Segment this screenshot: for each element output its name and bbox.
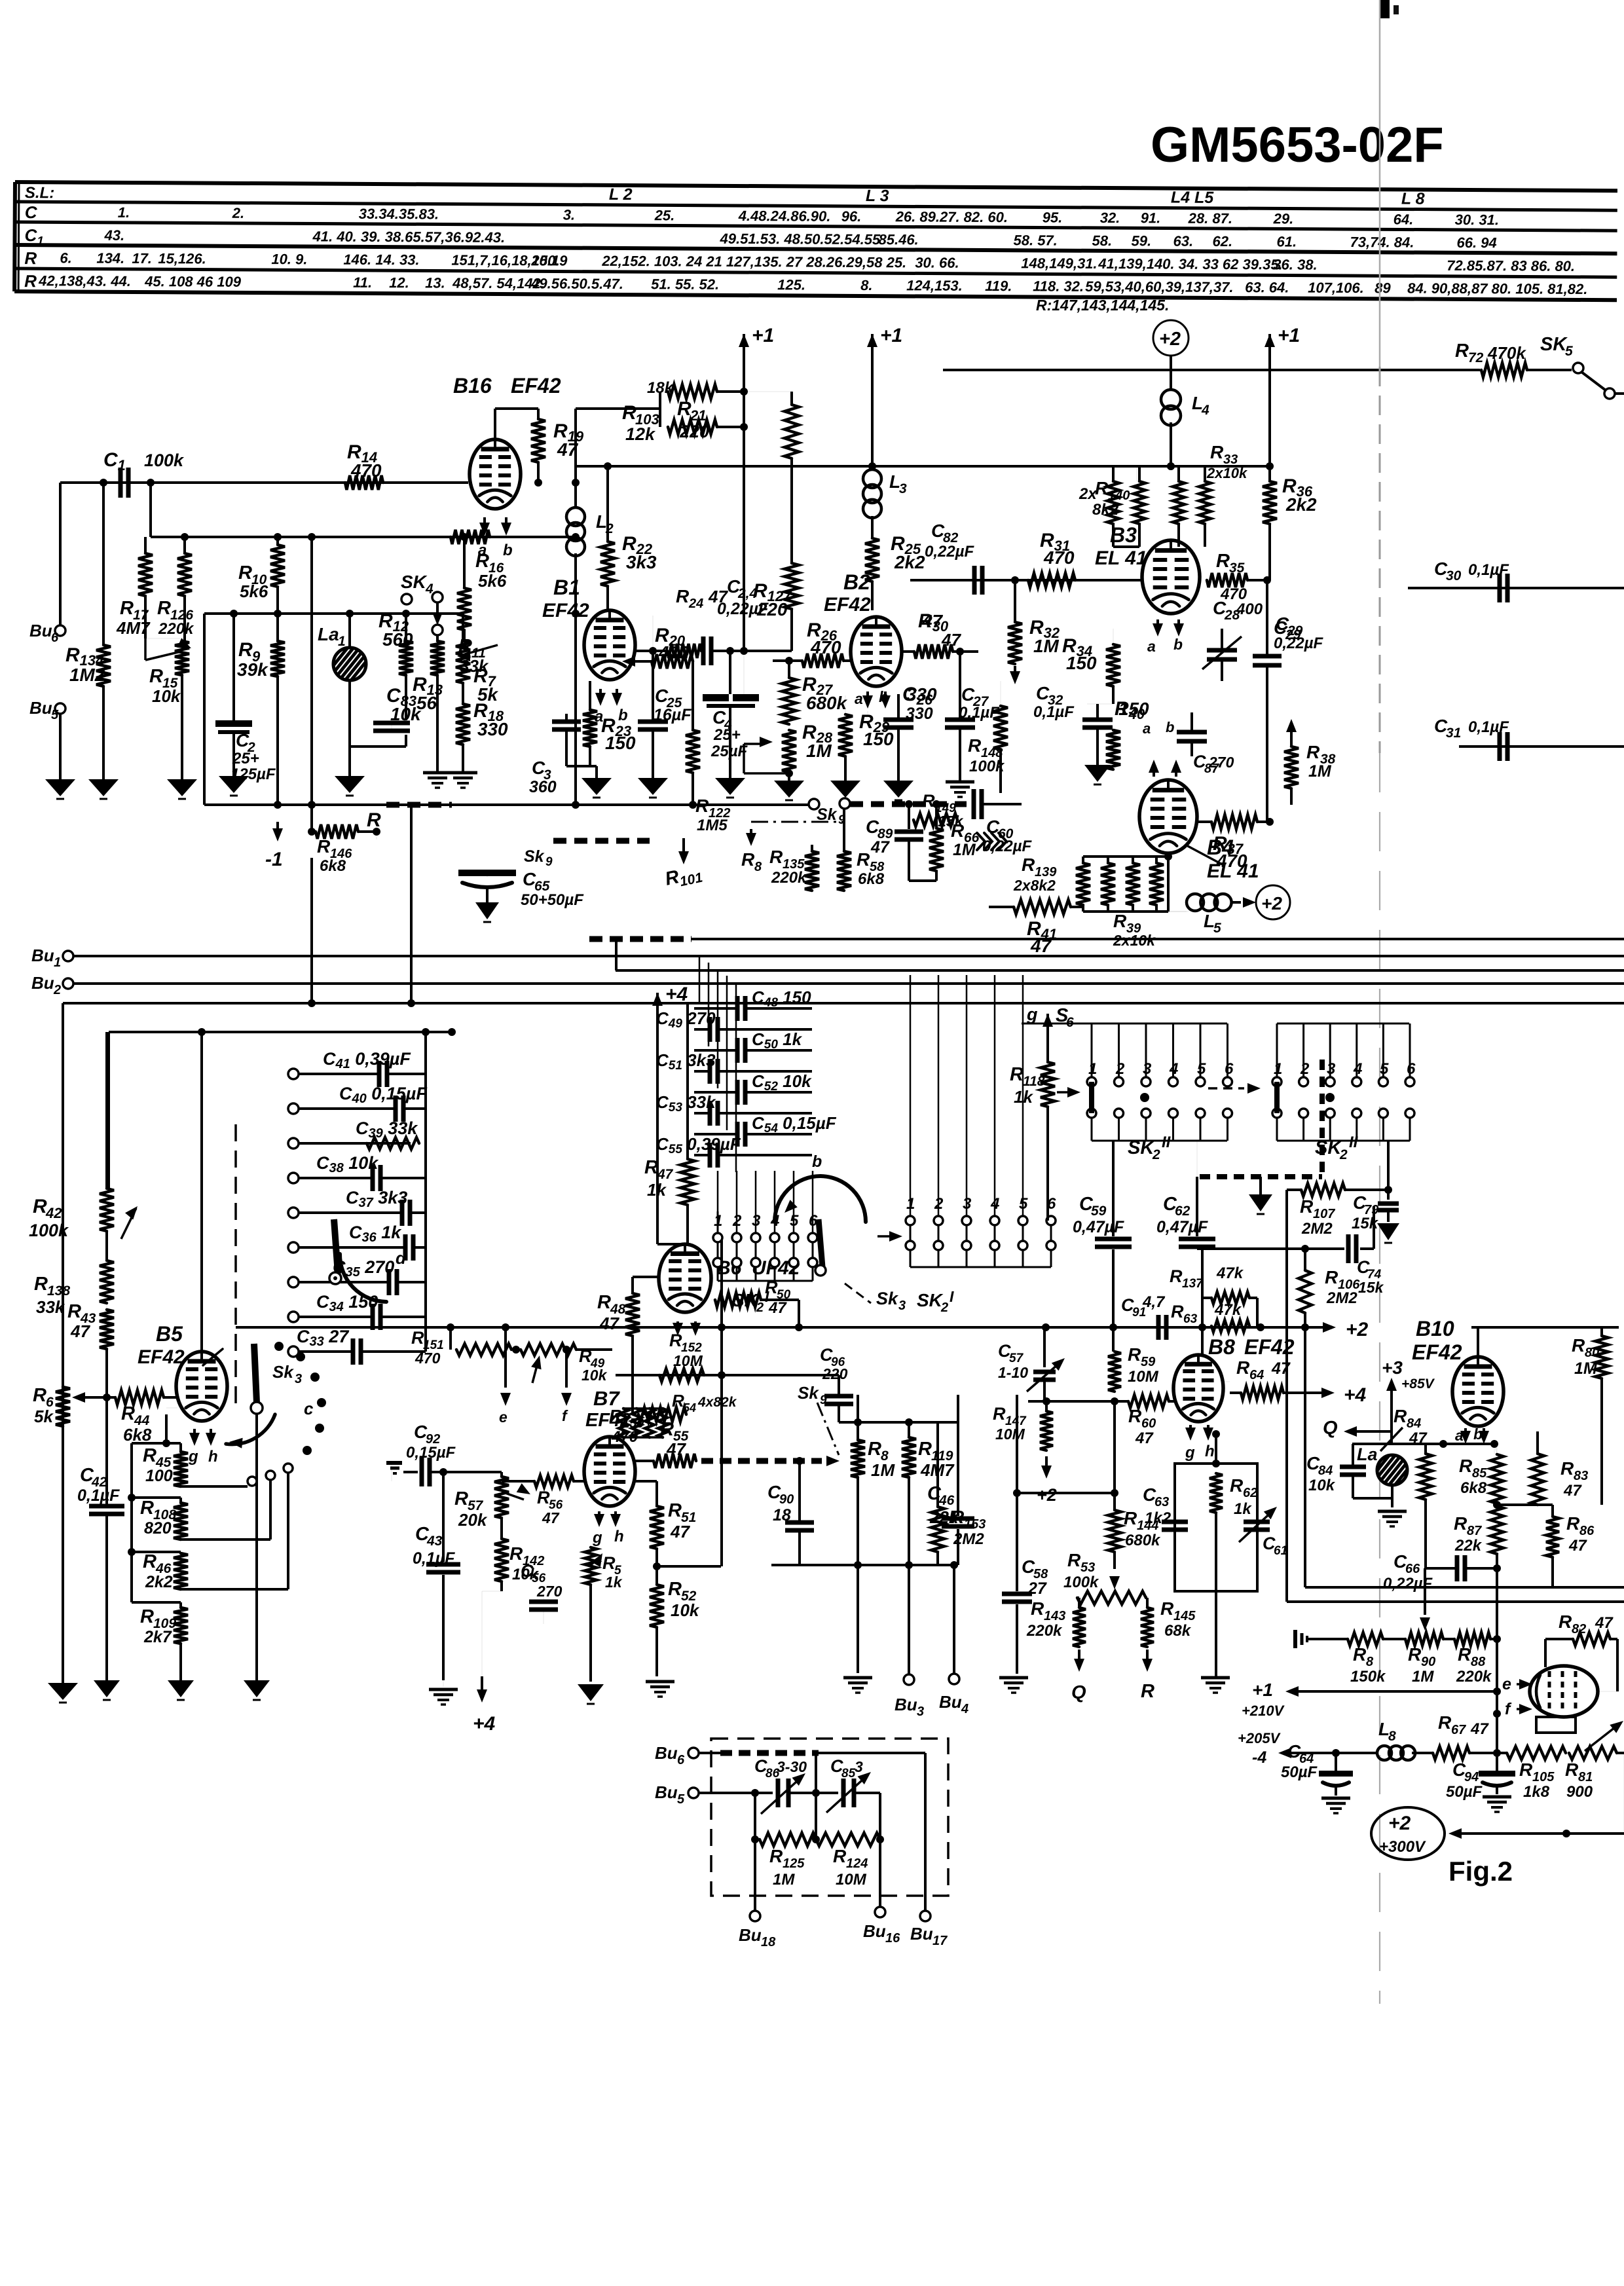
svg-text:Sk: Sk	[272, 1362, 294, 1382]
svg-text:d: d	[396, 1248, 407, 1268]
svg-text:SK: SK	[401, 572, 428, 592]
svg-text:45. 108 46 109: 45. 108 46 109	[144, 273, 242, 290]
svg-text:900: 900	[1566, 1783, 1593, 1801]
svg-text:145: 145	[1173, 1609, 1196, 1623]
svg-text:C49 270: C49 270	[656, 1008, 716, 1031]
svg-text:58. 57.: 58. 57.	[1013, 232, 1057, 248]
svg-text:20k: 20k	[458, 1510, 488, 1530]
svg-text:39k: 39k	[237, 659, 268, 680]
svg-text:560: 560	[382, 629, 413, 650]
svg-text:3: 3	[898, 1299, 906, 1313]
svg-text:47: 47	[768, 1299, 787, 1317]
svg-text:28. 87.: 28. 87.	[1188, 210, 1232, 227]
svg-text:R: R	[411, 1328, 424, 1348]
svg-text:R: R	[33, 1385, 46, 1406]
svg-text:R: R	[1022, 855, 1035, 875]
svg-text:2x10k: 2x10k	[1206, 465, 1248, 481]
svg-text:43.: 43.	[103, 227, 124, 244]
svg-text:1: 1	[338, 634, 346, 649]
svg-text:150: 150	[863, 729, 894, 749]
svg-text:R: R	[1216, 551, 1230, 572]
svg-text:+300V: +300V	[1379, 1838, 1426, 1856]
svg-text:EF42: EF42	[1412, 1340, 1462, 1364]
svg-text:270: 270	[1208, 754, 1234, 771]
svg-text:+1: +1	[752, 325, 774, 346]
svg-text:R: R	[1171, 1302, 1184, 1321]
svg-text:107: 107	[1313, 1207, 1335, 1221]
svg-text:3: 3	[295, 1372, 302, 1386]
svg-text:33k: 33k	[36, 1297, 65, 1317]
svg-text:0,1µF: 0,1µF	[77, 1486, 120, 1505]
svg-text:B7: B7	[593, 1387, 620, 1410]
svg-text:R:147,143,144,145.: R:147,143,144,145.	[1036, 297, 1169, 314]
svg-text:b: b	[503, 542, 513, 559]
svg-text:84: 84	[1407, 1416, 1421, 1431]
svg-text:56: 56	[416, 693, 437, 713]
svg-text:330: 330	[906, 705, 933, 723]
svg-text:R: R	[769, 847, 783, 867]
svg-text:1-10: 1-10	[998, 1364, 1028, 1381]
svg-text:0,47µF: 0,47µF	[1073, 1218, 1124, 1236]
svg-text:0,22µF: 0,22µF	[982, 838, 1033, 855]
svg-text:R: R	[1393, 1406, 1407, 1426]
svg-text:SK: SK	[732, 1290, 759, 1310]
svg-text:5k6: 5k6	[478, 571, 507, 591]
svg-text:220k: 220k	[771, 869, 807, 887]
svg-text:b: b	[812, 1152, 822, 1171]
svg-text:R: R	[1519, 1760, 1533, 1780]
svg-text:5k: 5k	[34, 1407, 54, 1426]
svg-text:17.: 17.	[132, 250, 152, 267]
svg-text:5: 5	[1197, 1060, 1206, 1078]
svg-text:150: 150	[605, 733, 636, 753]
svg-text:2M2: 2M2	[1326, 1289, 1357, 1307]
svg-text:+4: +4	[665, 984, 688, 1005]
svg-text:47: 47	[670, 1522, 690, 1541]
svg-text:66. 94: 66. 94	[1456, 234, 1496, 251]
svg-text:0,15µF: 0,15µF	[406, 1444, 456, 1462]
svg-text:h: h	[614, 1528, 624, 1545]
svg-text:h: h	[208, 1448, 218, 1466]
svg-text:2: 2	[1115, 1060, 1125, 1078]
svg-text:6: 6	[677, 1753, 685, 1767]
svg-text:22,152. 103. 24 21 127,135.: 22,152. 103. 24 21 127,135. 27 28.26.29,…	[601, 253, 906, 271]
svg-text:41. 40. 39. 38.65.57,36.92.43.: 41. 40. 39. 38.65.57,36.92.43.	[312, 228, 505, 246]
svg-text:4M7: 4M7	[116, 618, 151, 638]
svg-text:67: 67	[1451, 1723, 1466, 1737]
svg-text:10M: 10M	[673, 1352, 703, 1369]
svg-text:1M5: 1M5	[697, 817, 728, 834]
svg-text:I: I	[950, 1288, 954, 1305]
svg-text:17: 17	[932, 1934, 948, 1948]
svg-text:R: R	[1458, 1644, 1471, 1665]
svg-text:2k2: 2k2	[1285, 494, 1317, 515]
svg-text:47: 47	[1568, 1537, 1587, 1555]
svg-text:R: R	[833, 1846, 847, 1866]
svg-text:C: C	[25, 202, 38, 222]
svg-text:b: b	[879, 688, 888, 705]
svg-text:35: 35	[1229, 561, 1245, 576]
svg-text:150: 150	[1066, 653, 1097, 673]
svg-text:10M: 10M	[995, 1426, 1025, 1443]
svg-text:1.: 1.	[118, 204, 130, 221]
svg-text:94: 94	[1464, 1770, 1479, 1784]
svg-text:Bu: Bu	[31, 946, 54, 965]
svg-text:EF42: EF42	[511, 374, 561, 397]
svg-text:59.: 59.	[1131, 232, 1151, 249]
svg-text:g: g	[1185, 1444, 1195, 1462]
svg-text:II: II	[1162, 1134, 1172, 1151]
svg-text:2: 2	[1300, 1060, 1310, 1078]
svg-text:47: 47	[70, 1321, 90, 1341]
svg-text:2: 2	[756, 1300, 764, 1315]
svg-text:124: 124	[846, 1856, 868, 1871]
svg-text:-1: -1	[265, 849, 283, 870]
svg-text:9: 9	[820, 1393, 827, 1407]
svg-text:Q: Q	[1323, 1418, 1338, 1439]
svg-text:20.19: 20.19	[530, 252, 568, 268]
svg-text:220k: 220k	[158, 620, 194, 638]
svg-text:49.56.50.5.47.: 49.56.50.5.47.	[530, 275, 623, 292]
svg-text:26. 89.27. 82. 60.: 26. 89.27. 82. 60.	[895, 208, 1008, 225]
svg-text:+2: +2	[1346, 1319, 1369, 1340]
svg-text:2: 2	[605, 521, 614, 536]
svg-text:47: 47	[666, 1439, 686, 1459]
svg-text:+2: +2	[1037, 1485, 1057, 1505]
svg-text:R: R	[1459, 1456, 1473, 1476]
svg-text:SK: SK	[1128, 1137, 1155, 1158]
svg-text:68k: 68k	[1164, 1622, 1192, 1640]
svg-text:a: a	[1147, 638, 1156, 655]
svg-text:g: g	[592, 1529, 602, 1547]
svg-text:5k6: 5k6	[240, 581, 268, 601]
svg-text:54: 54	[683, 1401, 696, 1414]
svg-text:47: 47	[870, 838, 890, 857]
svg-text:118. 32.: 118. 32.	[1033, 278, 1084, 294]
svg-text:10k: 10k	[581, 1367, 608, 1384]
svg-text:3: 3	[855, 1758, 863, 1775]
svg-text:125µF: 125µF	[231, 765, 276, 783]
svg-text:R: R	[238, 639, 253, 661]
svg-text:R: R	[1124, 1508, 1137, 1528]
svg-text:La: La	[1357, 1445, 1378, 1464]
svg-text:2.: 2.	[232, 205, 244, 221]
svg-text:EL 41: EL 41	[1095, 547, 1147, 569]
svg-text:+2: +2	[1388, 1813, 1411, 1834]
svg-text:5: 5	[1380, 1060, 1389, 1078]
svg-text:Fig.2: Fig.2	[1449, 1856, 1513, 1887]
svg-text:61.: 61.	[1276, 233, 1297, 249]
svg-text:R: R	[1010, 1064, 1024, 1085]
svg-text:EF42: EF42	[1244, 1335, 1295, 1359]
svg-text:R: R	[669, 1331, 682, 1350]
svg-text:c: c	[304, 1399, 314, 1418]
svg-text:1k8: 1k8	[1523, 1783, 1550, 1801]
svg-text:R: R	[1300, 1196, 1314, 1217]
svg-text:R: R	[1559, 1612, 1572, 1632]
svg-text:b: b	[1473, 1426, 1483, 1443]
svg-text:2M2: 2M2	[953, 1530, 984, 1548]
svg-text:+4: +4	[473, 1713, 496, 1735]
svg-text:3: 3	[1327, 1060, 1336, 1078]
svg-text:SK: SK	[1540, 334, 1568, 355]
svg-text:270: 270	[536, 1583, 563, 1600]
svg-text:2: 2	[940, 1300, 948, 1315]
svg-text:Bu: Bu	[739, 1925, 762, 1945]
svg-text:29.: 29.	[1273, 210, 1294, 227]
svg-text:8: 8	[1366, 1655, 1374, 1669]
svg-text:R: R	[24, 248, 37, 268]
svg-text:1k: 1k	[1014, 1087, 1033, 1107]
svg-text:25+: 25+	[232, 750, 259, 767]
svg-text:83: 83	[1574, 1469, 1588, 1483]
svg-text:1: 1	[1088, 1060, 1097, 1078]
svg-text:R: R	[143, 1551, 157, 1572]
svg-text:10M: 10M	[836, 1871, 867, 1889]
svg-text:S.L:: S.L:	[25, 184, 54, 202]
svg-text:59,53,40,60,39,137,37.: 59,53,40,60,39,137,37.	[1085, 278, 1233, 295]
svg-text:a: a	[1455, 1427, 1464, 1444]
svg-text:R: R	[918, 1439, 932, 1460]
svg-text:2k7: 2k7	[143, 1628, 172, 1646]
svg-text:25µF: 25µF	[710, 743, 748, 760]
svg-text:42: 42	[45, 1205, 62, 1221]
svg-text:C39 33k: C39 33k	[356, 1118, 418, 1141]
svg-text:8.: 8.	[860, 277, 872, 293]
svg-text:119.: 119.	[985, 278, 1012, 294]
svg-text:330: 330	[477, 719, 508, 739]
svg-text:72: 72	[1468, 350, 1484, 365]
svg-text:C51 3k3: C51 3k3	[656, 1050, 716, 1073]
svg-text:R: R	[857, 849, 870, 870]
svg-text:66: 66	[1405, 1562, 1420, 1576]
svg-text:47: 47	[941, 630, 961, 650]
svg-text:153: 153	[964, 1517, 986, 1532]
svg-text:R: R	[1095, 478, 1109, 498]
svg-text:R: R	[1325, 1267, 1338, 1287]
svg-text:47: 47	[599, 1314, 619, 1333]
svg-text:220: 220	[756, 599, 788, 619]
svg-text:1k: 1k	[647, 1180, 667, 1200]
svg-text:e: e	[1502, 1675, 1511, 1693]
svg-text:5: 5	[51, 708, 59, 722]
svg-text:81: 81	[1578, 1770, 1593, 1784]
svg-text:1: 1	[54, 955, 61, 970]
svg-text:Sk: Sk	[876, 1289, 899, 1308]
svg-text:59: 59	[1091, 1204, 1107, 1219]
svg-text:47: 47	[1135, 1429, 1154, 1447]
svg-text:1M2: 1M2	[69, 665, 105, 685]
svg-text:C37 3k3: C37 3k3	[346, 1188, 407, 1210]
svg-text:Bu: Bu	[29, 698, 52, 718]
svg-text:b: b	[618, 707, 628, 724]
svg-text:6: 6	[51, 631, 59, 645]
svg-text:1M: 1M	[1412, 1668, 1434, 1686]
svg-text:30: 30	[1446, 568, 1462, 583]
svg-text:R: R	[33, 1196, 47, 1217]
svg-text:15,126.: 15,126.	[158, 250, 206, 267]
svg-text:La: La	[318, 624, 339, 644]
svg-text:63: 63	[1183, 1312, 1198, 1326]
svg-text:SK: SK	[1315, 1137, 1342, 1158]
svg-text:64: 64	[1249, 1368, 1264, 1382]
svg-text:0,1µF: 0,1µF	[1033, 703, 1075, 721]
svg-text:9: 9	[545, 855, 553, 869]
svg-text:6k8: 6k8	[858, 870, 885, 888]
svg-text:R: R	[1560, 1458, 1574, 1479]
svg-text:EF42: EF42	[585, 1410, 631, 1431]
svg-text:+1: +1	[1252, 1680, 1273, 1700]
svg-text:33.34.35.83.: 33.34.35.83.	[359, 206, 439, 223]
svg-text:B2: B2	[843, 570, 870, 594]
svg-text:46: 46	[938, 1493, 955, 1508]
svg-text:6k8: 6k8	[123, 1425, 152, 1445]
svg-text:Bu: Bu	[655, 1782, 678, 1802]
svg-text:Bu: Bu	[863, 1921, 886, 1941]
svg-text:10k: 10k	[1308, 1477, 1336, 1494]
svg-text:R: R	[157, 598, 171, 619]
svg-text:24: 24	[688, 597, 703, 611]
svg-text:61: 61	[1274, 1544, 1287, 1558]
svg-text:10k: 10k	[671, 1600, 700, 1620]
svg-text:30. 31.: 30. 31.	[1455, 212, 1499, 228]
svg-text:R: R	[1210, 442, 1224, 462]
svg-text:91.: 91.	[1141, 210, 1161, 226]
svg-text:470: 470	[415, 1350, 441, 1367]
svg-text:5: 5	[1213, 921, 1221, 936]
svg-text:R: R	[537, 1488, 550, 1507]
svg-text:22k: 22k	[1454, 1537, 1483, 1555]
svg-text:63.: 63.	[1173, 233, 1193, 249]
svg-text:R: R	[121, 1403, 135, 1424]
svg-text:25.: 25.	[654, 207, 675, 223]
svg-text:10k: 10k	[152, 686, 181, 706]
svg-text:47: 47	[542, 1509, 560, 1526]
svg-text:R: R	[317, 836, 331, 857]
svg-text:a: a	[855, 690, 863, 707]
svg-text:100k: 100k	[144, 451, 185, 470]
svg-text:124,153.: 124,153.	[906, 277, 963, 293]
svg-text:143: 143	[1044, 1609, 1065, 1623]
svg-text:C52 10k: C52 10k	[752, 1071, 812, 1094]
svg-text:R: R	[668, 1579, 682, 1600]
svg-text:50µF: 50µF	[1446, 1783, 1483, 1801]
svg-text:4.48.24.86.90.: 4.48.24.86.90.	[738, 208, 831, 225]
svg-text:134.: 134.	[96, 250, 124, 267]
svg-text:R: R	[951, 1507, 965, 1527]
svg-text:Q: Q	[1071, 1682, 1086, 1703]
svg-text:25+: 25+	[713, 726, 741, 744]
svg-text:+210V: +210V	[1242, 1703, 1285, 1719]
svg-text:R: R	[238, 562, 252, 583]
svg-text:105: 105	[1532, 1770, 1555, 1784]
svg-text:820: 820	[144, 1519, 172, 1538]
svg-text:27: 27	[1027, 1579, 1047, 1598]
svg-text:5: 5	[677, 1792, 685, 1807]
svg-text:R: R	[1306, 742, 1320, 762]
svg-text:h: h	[1205, 1443, 1215, 1460]
svg-text:137: 137	[1182, 1277, 1204, 1291]
svg-text:R: R	[1353, 1644, 1367, 1665]
svg-text:R: R	[1128, 1344, 1141, 1365]
svg-text:R: R	[922, 791, 935, 811]
svg-text:0,22µF: 0,22µF	[925, 543, 975, 561]
svg-text:87: 87	[1467, 1524, 1482, 1538]
svg-text:220k: 220k	[1026, 1622, 1063, 1640]
svg-text:138: 138	[47, 1283, 70, 1299]
svg-text:86: 86	[1579, 1524, 1595, 1538]
svg-text:R: R	[140, 1498, 154, 1519]
svg-text:3-30: 3-30	[777, 1758, 807, 1775]
svg-text:+1: +1	[880, 325, 902, 346]
svg-text:R: R	[741, 849, 755, 870]
svg-text:72.85.87. 83 86. 80.: 72.85.87. 83 86. 80.	[1447, 257, 1575, 274]
svg-text:L 8: L 8	[1401, 189, 1425, 208]
svg-text:Sk: Sk	[524, 847, 545, 866]
svg-text:73,74. 84.: 73,74. 84.	[1350, 234, 1414, 251]
svg-text:88: 88	[1471, 1655, 1486, 1669]
svg-text:15k: 15k	[1358, 1279, 1384, 1296]
svg-text:36. 38.: 36. 38.	[1273, 256, 1317, 272]
svg-text:B1: B1	[553, 576, 580, 599]
svg-text:R: R	[1408, 1644, 1422, 1665]
svg-text:R: R	[1455, 341, 1469, 361]
svg-text:L4 L5: L4 L5	[1171, 189, 1215, 207]
svg-text:Sk: Sk	[798, 1383, 819, 1403]
svg-text:R: R	[24, 271, 37, 291]
svg-text:R: R	[143, 1445, 157, 1466]
svg-text:R: R	[1572, 1335, 1585, 1355]
svg-text:EF42: EF42	[824, 594, 871, 616]
svg-text:16: 16	[885, 1931, 900, 1945]
svg-text:150k: 150k	[1350, 1668, 1386, 1686]
svg-text:B5: B5	[156, 1322, 183, 1346]
svg-text:Bu: Bu	[895, 1695, 917, 1714]
svg-text:1k: 1k	[1234, 1500, 1252, 1518]
svg-text:3: 3	[1143, 1060, 1152, 1078]
svg-text:II: II	[1349, 1134, 1359, 1151]
svg-text:144: 144	[1137, 1519, 1158, 1533]
svg-text:R: R	[140, 1606, 154, 1627]
svg-text:3k3: 3k3	[626, 552, 657, 572]
svg-text:R: R	[951, 820, 965, 841]
svg-text:47: 47	[1595, 1614, 1614, 1632]
svg-text:10. 9.: 10. 9.	[271, 251, 307, 267]
svg-text:47: 47	[1271, 1359, 1291, 1378]
svg-text:470: 470	[1043, 547, 1075, 568]
svg-text:4: 4	[961, 1702, 969, 1716]
svg-text:+2: +2	[1261, 893, 1282, 913]
svg-text:6: 6	[1225, 1060, 1234, 1078]
svg-text:B10: B10	[1416, 1317, 1454, 1340]
svg-text:1M: 1M	[806, 741, 832, 761]
svg-text:0,1µF: 0,1µF	[1468, 718, 1509, 736]
svg-text:GM5653-02F: GM5653-02F	[1151, 117, 1444, 173]
svg-text:41,139,140. 34. 33 62 39.35.: 41,139,140. 34. 33 62 39.35.	[1098, 255, 1282, 273]
svg-text:R: R	[1438, 1712, 1452, 1733]
svg-text:B16: B16	[453, 374, 492, 397]
svg-text:L 3: L 3	[866, 187, 889, 205]
svg-text:57: 57	[1009, 1352, 1024, 1365]
svg-text:220k: 220k	[1456, 1668, 1492, 1686]
svg-text:96.: 96.	[841, 208, 862, 225]
svg-text:90: 90	[1421, 1655, 1435, 1669]
svg-text:2x8k2: 2x8k2	[1013, 877, 1056, 894]
svg-text:b: b	[1166, 719, 1174, 735]
svg-text:Bu: Bu	[910, 1924, 933, 1944]
svg-text:Bu: Bu	[939, 1692, 962, 1712]
svg-text:89: 89	[1375, 280, 1391, 296]
